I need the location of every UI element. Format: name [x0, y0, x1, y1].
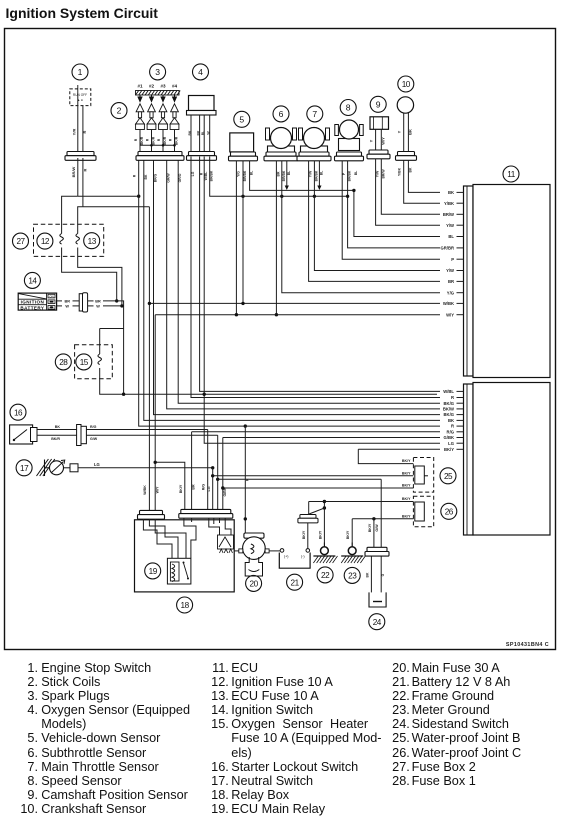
- wire battery positive: [307, 523, 309, 549]
- svg-text:11: 11: [507, 170, 515, 179]
- svg-text:BR/G: BR/G: [154, 173, 158, 182]
- battery lead connector bar: [298, 515, 318, 523]
- svg-text:BK/Y: BK/Y: [402, 471, 411, 475]
- svg-text:BK/R: BK/R: [175, 136, 179, 145]
- oxygen sensor B4: [193, 64, 209, 80]
- svg-text:BK/Y: BK/Y: [402, 497, 411, 501]
- svg-text:BL: BL: [354, 171, 358, 176]
- svg-text:LG: LG: [191, 171, 195, 176]
- svg-text:25: 25: [444, 472, 453, 481]
- sidestand switch S24: [365, 547, 389, 556]
- svg-text:BR/BK: BR/BK: [314, 170, 318, 181]
- svg-text:BK/R: BK/R: [152, 136, 156, 145]
- svg-text:BR/W: BR/W: [443, 212, 454, 217]
- connector bar crankshaft sensor: [396, 152, 417, 161]
- svg-text:W/Y: W/Y: [380, 137, 385, 145]
- svg-text:W/BL: W/BL: [204, 172, 208, 181]
- ECU lower pin labels: [443, 389, 464, 452]
- wire neutral switch LG: [78, 467, 213, 469]
- svg-text:BK/G: BK/G: [444, 401, 454, 406]
- svg-text:BR: BR: [192, 484, 196, 490]
- legend column 2: [211, 661, 229, 816]
- wire G/W to sidestand: [86, 434, 217, 436]
- frame ground E22: [323, 502, 325, 547]
- svg-text:R: R: [134, 138, 138, 141]
- svg-text:R/G: R/G: [90, 425, 97, 429]
- svg-text:15: 15: [80, 358, 89, 367]
- connector bar relay box right: [179, 509, 233, 518]
- svg-text:R: R: [451, 424, 454, 429]
- connector bar main throttle sensor: [297, 152, 331, 161]
- svg-text:BL: BL: [250, 171, 254, 176]
- svg-text:Y: Y: [397, 130, 402, 133]
- svg-text:R: R: [83, 168, 88, 171]
- svg-text:P: P: [342, 172, 346, 175]
- svg-text:9: 9: [376, 99, 381, 109]
- svg-text:G: G: [381, 573, 385, 576]
- BL stub arrow subthrottle: [286, 161, 288, 187]
- svg-text:BK: BK: [448, 190, 454, 195]
- svg-text:BR/BK: BR/BK: [210, 170, 214, 181]
- svg-text:R: R: [451, 395, 454, 400]
- wire fuse 15 path: [100, 328, 124, 330]
- svg-text:BR/BK: BR/BK: [282, 170, 286, 181]
- starter lockout switch S16: [10, 404, 26, 420]
- svg-text:R: R: [146, 138, 150, 141]
- svg-text:R: R: [82, 130, 87, 133]
- svg-text:BL: BL: [287, 171, 291, 176]
- svg-text:7: 7: [312, 109, 317, 119]
- legend column 3: [392, 661, 410, 788]
- svg-text:BK: BK: [55, 425, 61, 429]
- svg-text:P: P: [451, 257, 454, 262]
- svg-text:#4: #4: [172, 84, 178, 89]
- svg-text:W: W: [65, 305, 69, 309]
- svg-text:BK: BK: [448, 418, 454, 423]
- battery 21: [287, 574, 303, 590]
- svg-text:BK: BK: [188, 130, 192, 135]
- svg-text:BK/R: BK/R: [140, 136, 144, 145]
- wire BK/Y ECU to joint B: [358, 448, 440, 450]
- crankshaft sensor B10: [398, 76, 414, 92]
- ECU upper pin labels: [441, 190, 464, 317]
- svg-text:20: 20: [250, 580, 259, 589]
- svg-text:#1: #1: [137, 84, 143, 89]
- wire engine stop R branch: [82, 158, 84, 207]
- svg-text:10: 10: [402, 80, 411, 89]
- wire starter lockout BK: [37, 429, 77, 431]
- wire joint C second: [352, 518, 413, 520]
- wire G/W branch to sidestand: [218, 478, 382, 480]
- svg-text:GR/W: GR/W: [167, 173, 171, 183]
- svg-text:5: 5: [239, 114, 244, 124]
- svg-text:Y/R: Y/R: [72, 129, 77, 136]
- svg-text:BK/W: BK/W: [443, 407, 454, 412]
- svg-text:LG: LG: [94, 462, 100, 467]
- svg-text:BR/BK: BR/BK: [348, 170, 352, 181]
- ECU U11 upper box: [464, 185, 551, 378]
- svg-text:Y/W: Y/W: [309, 170, 313, 177]
- svg-text:28: 28: [59, 358, 68, 367]
- svg-text:BK: BK: [365, 572, 369, 577]
- wire G/W branch to relay box: [217, 435, 219, 509]
- border frame: [5, 29, 556, 650]
- svg-text:21: 21: [291, 578, 300, 587]
- relay box 18: [135, 520, 235, 592]
- svg-text:BK/Y: BK/Y: [179, 484, 183, 493]
- wire BL bus to ECU: [250, 161, 440, 237]
- wire coil GR/O to ECU BK/G: [178, 161, 440, 404]
- water-proof joint B 25: [413, 458, 433, 493]
- svg-text:R: R: [157, 138, 161, 141]
- svg-text:IGNITION: IGNITION: [21, 300, 45, 305]
- wire subthrottle to W/Y join: [275, 161, 277, 315]
- svg-text:BL: BL: [319, 171, 323, 176]
- relay box internal wires: [143, 519, 172, 558]
- wire main fuse to battery: [269, 550, 281, 552]
- svg-text:#3: #3: [160, 84, 166, 89]
- engine stop switch S1: [70, 64, 91, 106]
- svg-text:BK/R: BK/R: [51, 437, 60, 441]
- wire sidestand BK/Y up: [373, 519, 375, 548]
- svg-text:(-): (-): [301, 555, 305, 559]
- svg-text:R: R: [133, 174, 137, 177]
- wire stick coil common bus: [140, 144, 175, 146]
- svg-text:GR/O: GR/O: [178, 173, 182, 182]
- svg-text:1: 1: [78, 67, 83, 77]
- wire engine stop switch leads: [77, 95, 79, 152]
- connector ignition switch: [79, 293, 87, 312]
- wire fuse box feed left: [62, 196, 78, 233]
- connector bar speed sensor: [335, 152, 364, 161]
- svg-text:BK/Y: BK/Y: [402, 459, 411, 463]
- svg-text:23: 23: [348, 572, 357, 581]
- svg-text:G/W: G/W: [375, 524, 379, 532]
- wire oxygen BK to ECU W/BL: [200, 157, 440, 392]
- connector bar relay box left: [138, 510, 165, 519]
- ECU U11 lower box: [464, 383, 551, 536]
- connector bar oxygen sensor: [187, 152, 217, 161]
- svg-text:BK/Y: BK/Y: [346, 530, 350, 539]
- ECU main relay 19: [167, 558, 191, 584]
- wire crankshaft sensor leads: [403, 113, 405, 152]
- svg-text:BR: BR: [95, 300, 101, 304]
- wire ECU G/BK to relay box: [223, 437, 440, 439]
- wire Y/W main throttle to ECU: [314, 161, 440, 271]
- svg-text:2: 2: [117, 106, 122, 116]
- svg-text:BR/W: BR/W: [71, 166, 76, 177]
- wire BK crank to ECU: [408, 160, 440, 192]
- subthrottle sensor B6: [273, 106, 289, 122]
- svg-text:W/BK: W/BK: [443, 301, 454, 306]
- fuse F13 element: [76, 234, 80, 245]
- wire coil BK to ECU BK: [144, 161, 440, 421]
- ignition switch S14: [24, 272, 40, 288]
- svg-text:BK/G: BK/G: [444, 412, 454, 417]
- wire oxygen BL to ECU LG: [204, 157, 440, 444]
- svg-text:LG: LG: [448, 441, 454, 446]
- svg-text:17: 17: [20, 464, 29, 473]
- wire BR/BK ground bus: [210, 157, 348, 197]
- wire W/BK vehicle-down to ECU and relay: [242, 161, 244, 304]
- svg-text:BK/Y: BK/Y: [302, 530, 306, 539]
- BL stub arrow main throttle: [318, 161, 320, 187]
- meter ground E23: [351, 519, 353, 546]
- vehicle-down sensor B5: [234, 111, 250, 127]
- svg-text:6: 6: [279, 109, 284, 119]
- svg-text:12: 12: [41, 237, 50, 246]
- fuse box 1 (28) with oxygen heater fuse F15: [75, 345, 113, 379]
- svg-text:24: 24: [373, 618, 382, 627]
- svg-text:BK/Y: BK/Y: [368, 523, 372, 532]
- svg-text:(+): (+): [284, 555, 289, 559]
- svg-text:Y/W: Y/W: [376, 170, 380, 177]
- wire LG to relay box: [212, 468, 214, 510]
- svg-text:Y: Y: [369, 139, 374, 142]
- svg-text:Y/G: Y/G: [447, 290, 454, 295]
- wire battery lead diagonal: [308, 508, 325, 515]
- svg-text:BR: BR: [64, 300, 70, 304]
- svg-text:BATTERY: BATTERY: [20, 305, 44, 310]
- wire ignition switch W: [57, 305, 62, 307]
- camshaft position sensor B9: [370, 96, 386, 112]
- wire relay box to main fuse: [234, 550, 239, 552]
- svg-text:R: R: [169, 138, 173, 141]
- svg-text:BK: BK: [144, 174, 148, 179]
- svg-text:Y/W: Y/W: [446, 223, 454, 228]
- wire R/G to relay box: [207, 430, 209, 510]
- main fuse 30A F20: [246, 575, 262, 591]
- wire BR main throttle to ECU: [309, 161, 440, 282]
- wire oxygen sensor leads: [188, 115, 211, 152]
- wire oxygen BK to ECU R: [191, 157, 440, 398]
- connector bar stick coils: [136, 152, 184, 161]
- svg-text:BK/R: BK/R: [163, 136, 167, 145]
- svg-text:#2: #2: [149, 84, 155, 89]
- main throttle sensor B7: [307, 106, 323, 122]
- svg-text:LG: LG: [207, 486, 211, 491]
- svg-text:BR: BR: [276, 171, 280, 176]
- wire R/G to ECU: [86, 429, 207, 431]
- svg-text:GR/BR: GR/BR: [441, 246, 455, 251]
- wire P speed to ECU: [342, 161, 440, 260]
- label 11 ECU: [503, 166, 519, 182]
- svg-text:26: 26: [445, 507, 454, 516]
- svg-text:Y/BK: Y/BK: [444, 201, 454, 206]
- wire camshaft sensor leads: [375, 129, 377, 150]
- wire R main fuse feed: [244, 426, 246, 533]
- wire coil R to ECU R: [139, 161, 246, 427]
- connector starter lockout: [77, 425, 87, 446]
- wire coil GR/W to ECU BK/W: [167, 161, 440, 409]
- svg-text:27: 27: [16, 237, 25, 246]
- svg-text:W/BL: W/BL: [443, 389, 454, 394]
- svg-text:4: 4: [198, 67, 203, 77]
- svg-text:BK: BK: [197, 130, 201, 135]
- svg-text:BK/Y: BK/Y: [402, 514, 411, 518]
- connector bar engine stop switch: [65, 152, 96, 161]
- legend column 1: [20, 661, 38, 816]
- svg-text:BK/Y: BK/Y: [402, 484, 411, 488]
- wire W/Y vehicle-down to ECU and relay: [235, 161, 237, 315]
- svg-text:ON: ON: [49, 295, 53, 299]
- water-proof joint C 26: [413, 496, 433, 527]
- wire GR/BR speed to ECU: [348, 161, 440, 248]
- svg-text:W/Y: W/Y: [155, 486, 159, 493]
- svg-text:BL: BL: [201, 131, 205, 136]
- wire joint B second: [213, 475, 414, 477]
- svg-text:Y/W: Y/W: [446, 268, 454, 273]
- connector bar camshaft sensor: [367, 150, 390, 159]
- svg-text:BK/Y: BK/Y: [318, 530, 322, 539]
- svg-text:14: 14: [28, 277, 37, 286]
- wire ignition switch BR: [57, 300, 62, 302]
- svg-text:SP10431BN4 C: SP10431BN4 C: [506, 642, 549, 648]
- relay box fuse element: [218, 535, 234, 553]
- svg-text:R: R: [200, 172, 204, 175]
- svg-text:BR: BR: [448, 279, 454, 284]
- svg-text:BK: BK: [407, 129, 412, 135]
- svg-text:16: 16: [14, 408, 23, 417]
- speed sensor B8: [340, 100, 356, 116]
- svg-text:19: 19: [149, 567, 158, 576]
- svg-text:BK/Y: BK/Y: [444, 447, 454, 452]
- wire joint C first: [309, 501, 414, 503]
- wire fuse 15 bypass: [123, 329, 125, 395]
- fuse box 2 (27) with fuses F12 F13: [34, 224, 104, 256]
- svg-text:BR/W: BR/W: [381, 169, 385, 179]
- svg-text:W: W: [96, 305, 100, 309]
- wire starter lockout BK/R: [37, 434, 77, 436]
- svg-text:G/BK: G/BK: [444, 435, 454, 440]
- wire battery lead vertical: [308, 502, 310, 515]
- svg-text:8: 8: [346, 103, 351, 113]
- svg-text:BR/BK: BR/BK: [243, 170, 247, 181]
- svg-text:RUN OFF: RUN OFF: [73, 93, 87, 97]
- wire fuse box feed right: [78, 207, 83, 234]
- neutral switch S17: [16, 460, 32, 476]
- svg-text:BL: BL: [448, 234, 454, 239]
- svg-text:13: 13: [88, 237, 97, 246]
- wire ECU R/G to relay box: [192, 431, 440, 433]
- stick coils T2 and spark plugs E3: [111, 103, 127, 119]
- wire Y/G subthrottle to ECU: [282, 161, 440, 293]
- svg-text:W/Y: W/Y: [446, 312, 454, 317]
- wire engine stop to coil R: [77, 158, 79, 196]
- svg-text:22: 22: [321, 571, 330, 580]
- wire BR/W cam to ECU: [381, 159, 440, 215]
- wire Y/BK crank to ECU: [404, 160, 440, 203]
- svg-text:W/BK: W/BK: [143, 485, 147, 495]
- svg-text:R: R: [245, 478, 249, 481]
- svg-text:G/W: G/W: [90, 437, 98, 441]
- svg-text:Y/BK: Y/BK: [398, 167, 402, 176]
- fuse F12 element: [60, 234, 64, 245]
- wire Y/W cam to ECU: [376, 159, 440, 226]
- svg-text:R/G: R/G: [202, 484, 206, 491]
- connector bar vehicle-down sensor: [229, 152, 258, 161]
- connector bar subthrottle sensor: [264, 152, 298, 161]
- fuse F15 element: [98, 354, 102, 365]
- wire coil BR/G to ECU BK/G: [154, 161, 441, 415]
- svg-text:Y/G: Y/G: [236, 171, 240, 177]
- svg-text:R/G: R/G: [447, 429, 454, 434]
- wire joint B third: [223, 487, 414, 489]
- svg-text:3: 3: [155, 67, 160, 77]
- wire BK/Y to relay box: [155, 462, 185, 509]
- svg-text:BK: BK: [408, 167, 412, 172]
- svg-text:18: 18: [181, 601, 190, 610]
